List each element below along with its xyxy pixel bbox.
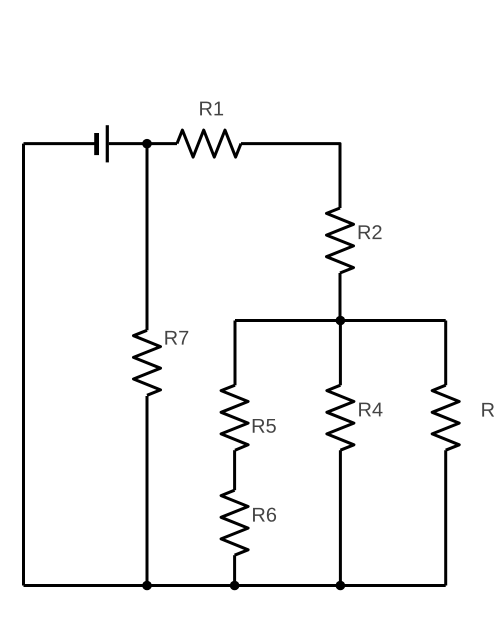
resistor R2 [327, 208, 354, 273]
node E junction dot [336, 581, 346, 591]
wire R1 to R2 top [241, 144, 340, 208]
label R5 [253, 419, 276, 433]
wire R6 bottom to node D [233, 555, 236, 585]
node B junction dot [336, 316, 346, 326]
resistor R6 [221, 490, 248, 555]
wire R2 bottom to node B [339, 273, 342, 321]
node C junction dot [142, 581, 152, 591]
resistor R3 [432, 385, 459, 450]
wire middle rail to R3 top [444, 321, 447, 386]
label R4 [359, 403, 382, 417]
resistor R1 [177, 130, 241, 157]
wire R4 bottom to node E [339, 450, 342, 585]
label R6 [253, 508, 276, 522]
resistor R4 [327, 385, 354, 450]
label R3 [482, 403, 495, 417]
label R2 [359, 225, 382, 239]
battery V1 negative plate [94, 133, 99, 155]
wire left rail [22, 144, 25, 586]
wire R7 bottom to node C [146, 396, 149, 586]
wire middle rail [235, 319, 446, 322]
wire node B branch left to R5 top [234, 321, 237, 386]
wire R5 to R6 [233, 450, 236, 490]
resistor R7 [134, 330, 161, 395]
wire node B to R4 top [339, 321, 342, 386]
wire battery positive to node A [109, 142, 147, 145]
resistor R5 [221, 385, 248, 450]
wire bottom rail [24, 584, 446, 587]
node D junction dot [230, 581, 240, 591]
node A junction dot [142, 139, 152, 149]
wire node A to R1 [147, 142, 177, 145]
label R7 [165, 331, 188, 345]
battery V1 positive plate [106, 125, 109, 162]
wire R3 bottom to bottom rail [444, 450, 447, 585]
wire node A to R7 top [146, 144, 149, 331]
wire battery negative to left rail [24, 142, 97, 145]
label R1 [200, 102, 223, 116]
